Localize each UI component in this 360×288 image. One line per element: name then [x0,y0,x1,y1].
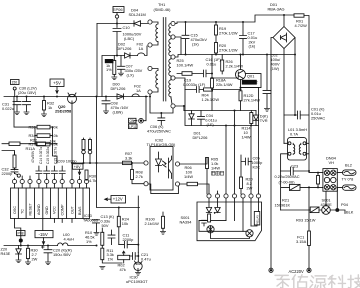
capacitor C31 [23,97,31,112]
svg-text:150u /50V: 150u /50V [53,252,71,257]
svg-text:VH: VH [329,160,335,165]
capacitor C19 [185,87,204,93]
capacitor C13 [93,220,100,223]
label R0B0 [105,59,114,63]
resistor R60 [317,173,320,188]
zener ZD0 [16,246,22,260]
wire drain rail [175,55,295,58]
optocoupler LED [156,152,167,172]
svg-text:(T-00-06): (T-00-06) [279,180,296,185]
fuse BL2a [343,170,357,175]
wire Q01 col to pins [226,88,259,194]
capacitor C16 [204,70,213,77]
choke L01 [281,103,309,173]
svg-text:22k.1/4W: 22k.1/4W [216,82,233,87]
IC03 pin 8 [70,179,74,183]
connector label boxes ON / LP11 [129,118,138,128]
transformer TH1 left pin 4 [148,90,152,94]
relay contact box [254,212,259,226]
optocoupler pin C [175,162,179,166]
svg-text:TY 0*8: TY 0*8 [342,177,354,182]
svg-text:2W: 2W [247,185,253,190]
svg-text:1.2k.1/2W: 1.2k.1/2W [202,97,220,102]
svg-text:TC: TC [21,209,25,214]
fuse F02 [138,46,148,55]
IC03 pin stubs below [15,184,87,188]
svg-text:4.7/2W: 4.7/2W [295,23,308,28]
protection box outline [197,202,262,241]
transformer TH1 left pin 2 [148,43,152,47]
svg-text:0.22u/250VAC: 0.22u/250VAC [275,174,300,179]
svg-text:(20u /15V): (20u /15V) [18,90,37,95]
resistor R05 [206,158,209,194]
terminal AC L [269,268,273,272]
watermark char 源 [310,276,326,288]
svg-text:(LBC): (LBC) [124,36,135,41]
relay coil K2 [246,230,253,237]
svg-text:2.2k.1/4W: 2.2k.1/4W [226,63,244,68]
svg-text:R43E: R43E [1,251,11,256]
svg-text:RESET: RESET [28,202,32,215]
fuse FC1 [308,231,311,268]
svg-text:AGND: AGND [37,204,41,215]
svg-text:1/4W: 1/4W [184,174,193,179]
ground C02 [264,109,269,112]
capacitor C30 [13,97,21,112]
resistor R06 [180,182,209,194]
wire winding tail [150,94,172,103]
capacitor row C16b [51,166,57,179]
wire B+ left vertical [96,24,98,97]
svg-text:(1k): (1k) [192,41,199,46]
capacitor C40 [199,220,206,226]
capacitor C04 [198,111,205,126]
svg-text:2.1k/1W: 2.1k/1W [145,221,160,226]
svg-text:P08: P08 [18,232,24,236]
resistor R28 [13,152,16,170]
svg-text:4.7k: 4.7k [89,178,96,183]
svg-text:COMP: COMP [61,204,65,216]
svg-text:(LBN): (LBN) [113,109,124,114]
svg-text:K2C: K2C [253,164,261,169]
svg-text:Q01: Q01 [247,74,254,79]
transformer TH1 sec winding 1 [169,24,171,38]
diode D20 [206,208,211,213]
wire mid bus [184,90,259,126]
wire line A [309,172,342,174]
svg-text:-15V: -15V [39,232,48,237]
potentiometer R02 [118,251,130,263]
svg-text:3.15A: 3.15A [296,239,307,244]
optocoupler pin E [175,182,179,186]
svg-text:10k: 10k [52,133,58,138]
svg-text:47u/50V: 47u/50V [31,150,35,163]
wire Q01 right [241,74,262,88]
svg-text:4.4uH: 4.4uH [64,237,75,242]
capacitor row C14 [36,166,42,179]
svg-text:100.1/4W: 100.1/4W [177,62,194,67]
resistor R25 [177,72,203,76]
svg-text:90k: 90k [52,125,58,130]
IC03 pin 5 [45,179,49,183]
svg-text:AC220V: AC220V [289,269,305,274]
capacitor C05 [241,155,252,177]
svg-text:3.3k: 3.3k [125,155,132,160]
wire AC left vertical [271,38,273,269]
pin c [224,194,228,198]
svg-text:P04: P04 [341,202,349,207]
svg-text:RELAY: RELAY [256,215,260,225]
svg-text:C10: C10 [123,25,131,30]
diode D00 [117,94,124,99]
varistor R21 [281,171,309,210]
svg-text:LP11: LP11 [129,125,136,129]
resistor R24 [117,208,120,245]
resistor R40 [208,214,211,222]
IC03 pin 6 [52,179,56,183]
svg-text:(1F): (1F) [207,122,215,127]
optocoupler IC02 body [150,147,173,191]
capacitor C10 [113,24,121,56]
wire DC minus vertical [283,49,285,144]
svg-text:10k: 10k [50,139,56,144]
capacitor C11 [119,241,139,248]
resistor R04 [204,88,241,91]
svg-text:470u/250VAC: 470u/250VAC [147,128,171,133]
fuse F03 [132,94,139,97]
IC03 pin 1 [12,179,16,183]
svg-text:1%: 1% [86,239,92,244]
watermark char 技 [348,275,360,288]
svg-text:0.7A: 0.7A [290,131,298,136]
svg-text:BL2: BL2 [345,163,352,168]
connector pins row: pin a [207,194,211,198]
resistor R20b [240,177,243,194]
label box +8V [73,164,84,175]
bridge rectifier D01 [273,15,295,49]
svg-text:R03 15/1W: R03 15/1W [296,218,316,223]
watermark 东佑源科技 [275,275,360,288]
svg-text:IC03: IC03 [84,214,92,218]
capacitor C18 [59,166,65,179]
resistor R36 [88,138,92,163]
svg-text:2W: 2W [32,257,38,262]
svg-text:0.0033u (1F): 0.0033u (1F) [183,82,206,87]
svg-text:2SC3852: 2SC3852 [243,81,258,85]
svg-text:+5V: +5V [53,81,61,86]
resistor R07 [123,161,132,164]
svg-text:DIFL206: DIFL206 [117,46,132,51]
IC03 pin stubs above [15,176,87,180]
svg-text:TVR: TVR [260,118,268,123]
resistor R32 [43,97,46,114]
diode D09 [253,111,258,126]
terminal AC N [307,268,311,272]
inductor L00 [58,243,68,246]
svg-text:1A: 1A [139,46,144,51]
svg-text:OSC: OSC [13,206,17,214]
pin b [215,194,219,198]
transformer TH1 left pin 3 [148,66,152,70]
label box -15V [35,231,53,245]
svg-text:1%: 1% [106,67,112,72]
svg-text:(SMD-46): (SMD-46) [154,7,172,12]
zener D21 [214,208,220,214]
resistor R10 [101,228,104,248]
ground C13 [96,223,98,232]
svg-text:SDL241M: SDL241M [129,12,146,17]
svg-text:2.7k: 2.7k [136,174,143,179]
svg-text:NA394: NA394 [180,220,193,225]
svg-text:C23: C23 [291,164,298,169]
wire ladder bus [14,97,57,164]
svg-text:C14 0.027u: C14 0.027u [39,147,43,164]
varistor R03 [310,207,319,213]
capacitor C02 [263,38,295,116]
svg-text:RBA-3AG: RBA-3AG [268,7,285,12]
svg-text:TA0008S: TA0008S [83,219,99,223]
svg-text:C10 0.022u: C10 0.022u [46,147,50,164]
capacitor C23 [281,167,309,175]
terminal P08 [17,231,26,246]
diode D04 [134,21,141,26]
resistor R08 [131,165,144,184]
transformer TH1 right pin 4 [171,76,175,80]
IC03 pin 10 [84,179,88,183]
svg-text:1k: 1k [48,105,52,110]
resistor R35 [82,138,86,163]
svg-text:1A: 1A [136,88,141,93]
resistor R100 [162,212,165,231]
IC03 pin 9 [77,179,81,183]
transformer TH1 sec winding 4 [169,78,171,98]
optocoupler pin A [144,161,148,165]
IC03 pin 4 [37,179,41,183]
svg-text:47k: 47k [120,267,126,272]
secondary main rail wire [4,96,148,98]
capacitor C21 [130,253,139,260]
ground C08 [103,111,108,114]
pin f [249,194,253,198]
svg-text:250VAC: 250VAC [311,116,325,121]
resistor R114 [250,111,253,126]
capacitor C08 [102,97,110,111]
watermark char 东 [275,275,289,288]
resistor R20 [215,35,218,55]
svg-text:2SD2058: 2SD2058 [55,108,72,113]
snubber rail wire [175,15,294,24]
svg-text:R11A: R11A [26,146,36,151]
transistor Q01 [212,55,259,88]
transformer TH1 right pin 3 [171,55,175,59]
wire sec pin stubs [175,37,185,111]
svg-text:+8V: +8V [74,165,81,169]
capacitor C32 [11,168,20,177]
svg-text:uPC1093GT: uPC1093GT [126,279,148,284]
transformer TH1 right pin 2 [171,35,175,39]
svg-text:DIFL206: DIFL206 [193,135,208,140]
wire S001 row [281,187,338,210]
junction dots snubber [185,21,187,23]
svg-text:150: 150 [12,81,18,85]
resistor R37 [35,142,53,146]
resistor R19 [215,22,218,35]
transformer TH1 right pin 1 [171,21,175,25]
svg-text:(1k): (1k) [249,44,256,49]
resistor R01 [294,14,309,103]
wire -15V rail [4,245,97,247]
wire opto to center [180,158,207,165]
svg-text:(LX): (LX) [127,72,135,77]
wires inside box [199,221,257,239]
capacitor C07 [118,56,125,73]
wire feedback [72,97,144,253]
pin e [241,194,245,198]
diode D02 [125,53,130,58]
capacitor C17 [240,22,247,55]
wire C06 loop [150,97,173,114]
svg-text:(1W): (1W) [271,66,280,71]
svg-text:EP06: EP06 [113,7,124,12]
svg-text:VCC: VCC [53,206,57,214]
wire opto loop [148,184,178,194]
resistor R18A [211,55,214,111]
pin g [256,194,260,198]
svg-text:BIAS: BIAS [78,206,82,215]
primary top rail wire [97,23,148,25]
terminal P04 [336,209,345,214]
IC03 pin 3 [28,179,32,183]
connector DN04 [323,169,337,192]
pin stubs into box [209,191,259,231]
svg-text:OUT: OUT [70,205,74,214]
watermark char 科 [328,275,345,288]
svg-text:ON: ON [130,119,135,123]
label nohanjian [212,172,224,176]
svg-text:0.01u: 0.01u [207,61,217,66]
svg-text:2200p: 2200p [2,171,13,176]
wire line B [309,187,342,231]
resistor R11 [101,248,122,263]
spark gap S001 [322,206,331,215]
transistor Q20 [68,93,77,103]
transformer TH1 aux winding [152,69,158,93]
capacitor C06 [158,113,165,125]
optocoupler pin K [144,182,148,186]
transformer TH1 right pin 5 [171,104,175,108]
svg-text:270k.1/2W: 270k.1/2W [219,47,238,52]
wire Q20 emitter [71,103,73,163]
svg-text:27k.1/4W: 27k.1/4W [244,97,261,102]
resistor R22 [2,142,57,155]
svg-text:DIFL206: DIFL206 [111,86,126,91]
resistor R0B0 [113,56,116,77]
IC03 pin 7 [60,179,64,183]
label box +5V [50,79,64,93]
svg-text:+12V: +12V [113,197,123,202]
transformer TH1 primary winding [152,22,158,45]
pin d [232,194,236,198]
svg-text:TLP181(GB-GB): TLP181(GB-GB) [147,142,176,147]
svg-text:GND: GND [45,206,49,215]
label box +12V [105,196,126,204]
capacitor C22 [108,230,115,245]
connector label P50 [11,80,20,97]
connector IC03 body [11,188,90,219]
resistor R33 [35,125,53,129]
svg-text:1%: 1% [108,257,114,262]
resistor R21b [2,142,36,146]
capacitor C20 [42,246,53,262]
optocoupler transistor [169,156,172,179]
svg-text:1/4W: 1/4W [242,134,251,139]
svg-text:2200p: 2200p [123,237,134,242]
zener D08 [189,111,195,126]
svg-text:150961K: 150961K [275,203,291,208]
watermark char 佑 [292,275,307,288]
svg-text:1/4W: 1/4W [211,165,220,170]
fuse BL2b [343,185,357,190]
svg-text:R33: R33 [29,125,36,130]
capacitor C01 [284,111,309,119]
svg-text:270k.1/2W: 270k.1/2W [219,30,238,35]
transformer TH1 left pin 1 [148,20,152,24]
shunt regulator IC30 [134,252,142,272]
resistor R34 [35,134,53,138]
capacitor row C15b [44,166,50,179]
svg-text:R22: R22 [30,138,37,143]
capacitor C15 [182,22,189,55]
resistor R26 [221,55,224,75]
svg-text:50V: 50V [102,223,109,228]
svg-text:0.022u: 0.022u [2,106,14,111]
wires below IC [15,219,73,236]
resistor R31 [27,246,30,262]
resistor R12 [239,91,242,111]
terminal ON/OFF [134,97,146,123]
connector EP06 [113,7,124,24]
transformer TH1 sec winding 3 [169,57,171,78]
svg-text:BLK: BLK [346,210,354,215]
svg-text:4300E: 4300E [321,202,333,207]
transformer TH1 core [163,18,166,102]
relay coil K1 [207,226,214,233]
IC03 pin 2 [20,179,24,183]
transformer TH1 sec winding 2 [169,37,171,56]
svg-text:0.47u: 0.47u [141,256,151,261]
wire aux rail [102,56,138,97]
svg-text:10k: 10k [122,221,128,226]
resistor R30b [85,170,88,180]
